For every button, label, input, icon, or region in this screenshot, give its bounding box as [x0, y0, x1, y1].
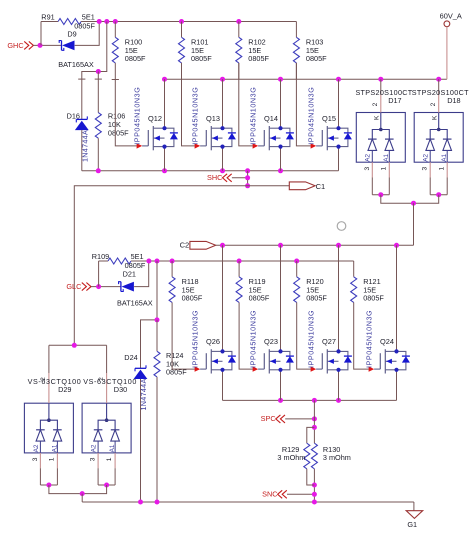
wire Q24 drain — [396, 245, 398, 351]
net SPC off-page connector — [261, 414, 285, 423]
svg-text:0805F: 0805F — [248, 54, 269, 63]
wire Q27 source — [338, 370, 340, 401]
transistor Q12 — [142, 114, 178, 150]
zener diode D16 1N4744A — [75, 79, 89, 171]
wire bottom gate rail GL — [149, 260, 354, 262]
resistor R103 — [293, 22, 299, 80]
label R121 value — [363, 277, 384, 303]
wire ground rail — [82, 501, 414, 503]
wire Q13 gate feed — [182, 63, 195, 146]
gate pin marker Q13 — [195, 143, 201, 148]
svg-text:D29: D29 — [58, 385, 71, 394]
svg-text:A2: A2 — [365, 153, 372, 161]
dual schottky D29 box — [24, 403, 73, 453]
transistor Q23 — [258, 337, 294, 373]
svg-text:D30: D30 — [114, 385, 127, 394]
svg-text:IPP045N10N3G: IPP045N10N3G — [306, 87, 315, 145]
gate pin marker Q23 — [253, 366, 259, 371]
svg-text:A1: A1 — [383, 153, 390, 161]
svg-text:Q14: Q14 — [264, 114, 278, 123]
wire Q24 source — [396, 370, 398, 401]
transistor Q15 — [316, 114, 352, 150]
dual schottky D18 box — [414, 113, 463, 163]
D30 labels — [90, 377, 116, 461]
node clamp junction — [96, 69, 101, 74]
resistor R124 — [154, 320, 160, 502]
svg-text:2: 2 — [430, 102, 437, 106]
wire top source rail SHC — [82, 170, 339, 172]
wire Q12 source — [164, 147, 166, 171]
wire clamp node to top rail — [98, 22, 107, 72]
svg-text:K: K — [374, 115, 381, 120]
svg-text:3 mOhm: 3 mOhm — [277, 453, 305, 462]
svg-text:A2: A2 — [423, 153, 430, 161]
svg-text:3: 3 — [422, 167, 429, 171]
svg-text:1N4744A: 1N4744A — [139, 378, 148, 410]
wire clamp2 node to D24 — [141, 320, 158, 368]
dual schottky D30 box — [82, 403, 131, 453]
svg-text:1N4744A: 1N4744A — [81, 130, 90, 162]
label R103 value — [306, 38, 327, 64]
svg-text:R109: R109 — [92, 252, 109, 261]
wire SHC stub — [232, 177, 248, 179]
resistor R91 — [41, 19, 99, 46]
wire C1 net — [74, 186, 289, 345]
svg-text:3 mOhm: 3 mOhm — [323, 453, 351, 462]
D29 labels — [32, 377, 58, 461]
svg-text:0805F: 0805F — [249, 294, 270, 303]
gate pin marker Q27 — [311, 366, 317, 371]
gate pin marker Q15 — [311, 143, 317, 148]
svg-text:SNC: SNC — [262, 490, 277, 499]
wire Q23 source — [280, 370, 282, 401]
svg-text:BAT165AX: BAT165AX — [117, 298, 153, 307]
node top rail junctions — [97, 19, 102, 24]
svg-text:A1: A1 — [441, 153, 448, 161]
wire Q12 drain — [164, 79, 166, 128]
resistor R118 — [169, 261, 175, 319]
node GHC junction — [38, 43, 43, 48]
off-page connector C2 — [190, 241, 216, 249]
wire clamp node to D16 — [82, 72, 99, 80]
node bottom source rail junctions — [278, 398, 283, 403]
wire Q26 source — [222, 370, 224, 401]
node drain rail junctions — [162, 77, 167, 82]
wire ground rail to G1 — [413, 502, 415, 511]
power port 60V_A — [440, 12, 462, 27]
wire Q13 source — [222, 147, 224, 171]
svg-text:2: 2 — [372, 102, 379, 106]
resistor R129 — [304, 427, 315, 485]
gate pin marker Q14 — [253, 143, 259, 148]
node SHC junction — [245, 175, 250, 180]
resistor R121 — [351, 261, 357, 319]
node anode bus tap — [411, 201, 416, 206]
svg-text:Q13: Q13 — [206, 114, 220, 123]
label R120 value — [306, 277, 327, 303]
svg-text:IPP045N10N3G: IPP045N10N3G — [306, 310, 315, 368]
svg-text:Q26: Q26 — [206, 337, 220, 346]
zener diode D24 1N4744A — [134, 365, 148, 502]
svg-text:5E1: 5E1 — [82, 13, 95, 22]
transistor Q13 — [200, 114, 236, 150]
wire Q15 gate feed — [296, 63, 310, 146]
svg-text:0805F: 0805F — [306, 294, 327, 303]
D30 cathode pin 2 — [105, 345, 109, 422]
D17 cathode pin 2 — [379, 79, 383, 131]
svg-text:60V_A: 60V_A — [440, 12, 462, 21]
node D30 anode join — [104, 483, 109, 488]
node ground rail junctions — [138, 500, 143, 505]
resistor R109 — [99, 258, 149, 287]
svg-text:VS-63CTQ100: VS-63CTQ100 — [28, 377, 82, 386]
D17 internal diodes — [368, 130, 394, 151]
label R129 value — [277, 445, 305, 462]
node anode bus tap 2 — [80, 491, 85, 496]
node D18 anode join — [436, 192, 441, 197]
wire Q27 gate feed — [297, 319, 311, 369]
svg-text:D16: D16 — [67, 111, 80, 120]
svg-text:3: 3 — [364, 167, 371, 171]
wire GHC to D9 anode-bar — [33, 44, 61, 46]
D29 anode pins — [40, 441, 57, 485]
svg-text:5E1: 5E1 — [131, 252, 144, 261]
label R101 value — [191, 38, 212, 64]
svg-text:0805F: 0805F — [363, 294, 384, 303]
wire source rail to C1 net — [247, 171, 249, 186]
wire SNC stub — [287, 493, 314, 495]
net GHC off-page connector — [7, 41, 33, 50]
resistor R120 — [294, 261, 300, 319]
label R118 value — [182, 277, 203, 303]
wire D17-D18 anode bus — [381, 195, 439, 204]
svg-text:Q23: Q23 — [264, 337, 278, 346]
svg-text:A2: A2 — [91, 444, 98, 452]
transistor Q26 — [200, 337, 236, 373]
svg-text:3: 3 — [90, 457, 97, 461]
svg-text:D18: D18 — [447, 96, 460, 105]
net GLC off-page connector — [66, 282, 91, 291]
wire Q24 gate feed — [354, 319, 369, 369]
net SNC off-page connector — [262, 490, 287, 499]
wire Q23 gate feed — [239, 319, 253, 369]
svg-text:0805F: 0805F — [108, 128, 129, 137]
label R130 value — [323, 445, 351, 462]
label R106 value — [108, 112, 129, 138]
wire Q15 source — [338, 147, 340, 171]
D30 internal diodes — [94, 420, 120, 441]
D17 anode pins — [372, 150, 389, 194]
resistor R106 — [95, 72, 102, 171]
wire anode bus to C2 net — [413, 203, 415, 245]
svg-text:D21: D21 — [123, 270, 136, 279]
D18 anode pins — [430, 150, 447, 194]
diode D21 BAT165AX — [120, 282, 122, 292]
wire D9 cathode-side to top gate rail — [75, 22, 100, 46]
label R119 value — [249, 277, 270, 303]
wire D21 cathode-side to gate rail — [134, 261, 149, 287]
node left vertical junction — [72, 343, 77, 348]
svg-text:0805F: 0805F — [182, 294, 203, 303]
wire Q14 gate feed — [239, 63, 253, 146]
svg-text:R91: R91 — [41, 13, 54, 22]
dual schottky D17 box — [356, 113, 405, 163]
svg-text:1: 1 — [438, 167, 445, 171]
svg-text:SHC: SHC — [207, 173, 222, 182]
svg-text:C2: C2 — [180, 241, 190, 250]
svg-text:SPC: SPC — [261, 414, 276, 423]
off-page connector C1 — [289, 182, 315, 190]
svg-text:BAT165AX: BAT165AX — [58, 60, 94, 69]
node GLC junction — [96, 284, 101, 289]
wire Q26 gate feed — [172, 319, 195, 369]
wire top gate rail GH — [99, 21, 297, 23]
wire Q27 drain — [338, 245, 340, 351]
wire Q14 drain — [280, 79, 282, 128]
svg-text:0805F: 0805F — [191, 54, 212, 63]
resistor R101 — [179, 22, 185, 80]
label R124 value — [166, 351, 187, 377]
svg-text:Q27: Q27 — [322, 337, 336, 346]
svg-text:1: 1 — [106, 457, 113, 461]
wire D29-D30 anode bus — [49, 485, 107, 494]
resistor R130 — [311, 443, 317, 469]
svg-text:G1: G1 — [407, 520, 417, 529]
svg-text:Q15: Q15 — [322, 114, 336, 123]
svg-text:Q12: Q12 — [148, 114, 162, 123]
unconnected marker circle — [337, 222, 346, 231]
wire anode bus to ground rail — [81, 494, 83, 502]
svg-text:0805F: 0805F — [74, 22, 95, 31]
wire Q23 drain — [280, 245, 282, 351]
svg-text:K: K — [432, 115, 439, 120]
wire Q12 gate feed — [115, 80, 136, 146]
wire gate rail to clamp2 node — [156, 261, 158, 320]
D30 anode pins — [98, 441, 115, 485]
wire C2 net drain bus — [216, 244, 414, 246]
node D29 anode join — [46, 483, 51, 488]
gate pin marker Q12 — [137, 143, 143, 148]
svg-text:A1: A1 — [109, 444, 116, 452]
svg-text:0805F: 0805F — [306, 54, 327, 63]
power port G1 — [406, 511, 423, 529]
node shunt bottom junction — [312, 483, 317, 488]
svg-text:IPP045N10N3G: IPP045N10N3G — [190, 310, 199, 368]
wire SPC stub — [285, 418, 314, 420]
svg-text:1: 1 — [380, 167, 387, 171]
wire Q14 source — [280, 147, 282, 171]
svg-text:3: 3 — [32, 457, 39, 461]
wire Q26 drain — [222, 245, 224, 351]
node shunt top junction — [312, 425, 317, 430]
svg-text:GHC: GHC — [7, 41, 23, 50]
node C1 junction — [245, 183, 250, 188]
wire shunt center — [313, 400, 315, 443]
wire 60V_A stub — [446, 27, 448, 79]
node SNC junction — [312, 492, 317, 497]
wire Q15 drain — [338, 79, 340, 128]
node bottom gate rail junctions — [146, 259, 151, 264]
transistor Q14 — [258, 114, 294, 150]
D29 internal diodes — [36, 420, 62, 441]
wire GLC stub — [91, 286, 121, 288]
resistor R119 — [236, 261, 242, 319]
resistor R102 — [236, 22, 242, 80]
svg-text:A1: A1 — [51, 444, 58, 452]
svg-text:IPP045N10N3G: IPP045N10N3G — [190, 87, 199, 145]
node clamp2 junction — [155, 317, 160, 322]
wire Q13 drain — [222, 79, 224, 128]
svg-text:IPP045N10N3G: IPP045N10N3G — [364, 310, 373, 368]
node SPC junction — [312, 416, 317, 421]
svg-text:Q24: Q24 — [380, 337, 394, 346]
diode D9 BAT165AX — [61, 41, 63, 51]
D17 labels — [364, 102, 390, 170]
svg-text:D9: D9 — [67, 30, 76, 39]
gate pin marker Q24 — [369, 366, 375, 371]
svg-text:IPP045N10N3G: IPP045N10N3G — [248, 310, 257, 368]
svg-text:IPP045N10N3G: IPP045N10N3G — [132, 87, 141, 145]
wire bottom source rail SP — [223, 399, 397, 401]
node source rail junctions — [96, 168, 101, 173]
svg-text:STPS20S100CT: STPS20S100CT — [355, 88, 412, 97]
svg-text:D24: D24 — [124, 353, 137, 362]
svg-text:C1: C1 — [316, 182, 326, 191]
svg-text:0805F: 0805F — [125, 54, 146, 63]
D18 internal diodes — [426, 130, 452, 151]
node C2 bus junctions — [220, 243, 225, 248]
D18 labels — [422, 102, 448, 170]
transistor Q27 — [316, 337, 352, 373]
svg-text:1: 1 — [49, 457, 56, 461]
D29 cathode pin 2 — [47, 345, 51, 422]
net SHC off-page connector — [207, 173, 232, 182]
wire top drain rail to 60V_A — [165, 78, 447, 80]
resistor R100 — [112, 22, 119, 80]
D18 cathode pin 2 — [437, 79, 441, 131]
transistor Q24 — [374, 337, 410, 373]
svg-text:D17: D17 — [388, 96, 401, 105]
svg-text:GLC: GLC — [66, 282, 81, 291]
svg-text:VS-63CTQ100: VS-63CTQ100 — [83, 377, 137, 386]
node D17 anode join — [378, 192, 383, 197]
gate pin marker Q26 — [195, 366, 201, 371]
svg-text:IPP045N10N3G: IPP045N10N3G — [248, 87, 257, 145]
label R100 value — [125, 38, 146, 64]
wire SHC net to D29 D30 cathodes — [49, 344, 107, 346]
label R102 value — [248, 38, 269, 64]
svg-text:A2: A2 — [33, 444, 40, 452]
